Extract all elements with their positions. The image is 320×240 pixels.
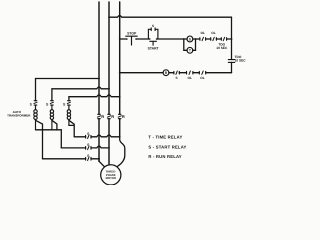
wire: line1 to L3' with hops over L1,L2 <box>91 135 120 137</box>
autotransformer winding 1 <box>34 105 37 130</box>
svg-text:START: START <box>148 46 160 50</box>
wire: drop from bus to line3 <box>42 130 44 159</box>
svg-text:S: S <box>87 154 90 158</box>
node: rung2 tap on L3 <box>119 72 121 74</box>
svg-text:S: S <box>63 102 66 106</box>
contact R (L1) <box>97 114 104 119</box>
svg-text:S: S <box>87 143 90 147</box>
svg-text:10 SEC: 10 SEC <box>235 59 247 63</box>
contact S (line1) <box>86 132 91 138</box>
node: T branch right <box>195 38 197 40</box>
phase line L1 <box>98 2 100 161</box>
contact OL (rung2 first) <box>187 71 193 80</box>
pushbutton STOP (NC) <box>126 32 138 46</box>
svg-text:S: S <box>189 37 192 41</box>
svg-text:R: R <box>111 114 114 119</box>
wire: transformer feed H3 from L3 (hops over L2 and L1) <box>69 95 120 101</box>
wire <box>216 38 221 40</box>
contact S (winding 1 top) <box>30 101 37 107</box>
wire: rung2 from L3 to R coil <box>120 72 163 74</box>
svg-text:TRANSFORMER: TRANSFORMER <box>7 114 31 118</box>
label AUTO TRANSFORMER <box>7 110 31 118</box>
contact OL (rung1 second) <box>211 31 217 41</box>
contact S (line3) <box>86 154 91 160</box>
node: rung1 right <box>231 38 233 40</box>
wire <box>206 38 211 40</box>
contact OL (rung1 first) <box>200 31 206 41</box>
contact S (rung2) <box>174 71 179 80</box>
svg-text:OL: OL <box>211 31 215 35</box>
node: tap2 on bus <box>56 129 58 131</box>
node: T branch left <box>183 38 185 40</box>
svg-text:S: S <box>152 24 154 28</box>
wire: line1 left segment <box>74 136 85 138</box>
contact S (winding 3 top) <box>63 101 70 107</box>
timed contact TDO 10 SEC on right rail <box>228 55 246 63</box>
node: line3 on L1' <box>98 158 100 160</box>
svg-text:OL: OL <box>187 76 191 80</box>
svg-text:R: R <box>101 114 104 119</box>
node: line2 on L2' <box>108 147 110 149</box>
svg-text:S: S <box>30 102 33 106</box>
wire: S coil to OL contacts <box>193 38 200 40</box>
node: H1 tap on L1 <box>98 78 100 80</box>
phase line L2 <box>108 2 110 165</box>
svg-text:R - RUN RELAY: R - RUN RELAY <box>148 154 181 159</box>
legend <box>148 135 186 159</box>
wire: right rail lower <box>231 62 233 72</box>
relay coil R <box>163 70 169 76</box>
pushbutton START (NO) with seal-in contact S branch <box>148 24 160 50</box>
svg-text:MOTOR: MOTOR <box>106 176 116 180</box>
svg-text:10 SEC: 10 SEC <box>216 46 228 50</box>
contact R (L2) <box>107 114 114 119</box>
wire: motor lead from L1' <box>99 159 105 167</box>
svg-text:S - START RELAY: S - START RELAY <box>148 144 186 149</box>
wire: control top line from L2 to right rail <box>109 16 232 18</box>
wire: transformer feed H1 from L1 <box>36 79 100 101</box>
node: line1 on L3' <box>119 136 121 138</box>
node: tap on L2 <box>108 16 110 18</box>
wire: to right rail <box>227 38 232 40</box>
contact R (L3) <box>118 114 125 119</box>
svg-text:STOP: STOP <box>127 32 137 36</box>
relay coil S <box>187 36 193 42</box>
relay coil T (parallel branch) <box>184 39 196 53</box>
svg-text:T: T <box>189 49 192 53</box>
wire: winding1 tap <box>36 120 43 130</box>
contact S (line2) <box>86 143 91 149</box>
node: tap1 on bus <box>42 129 44 131</box>
wire: rung1 segment from L3 to STOP <box>120 38 127 40</box>
svg-text:S: S <box>87 132 90 136</box>
wire: winding2 tap <box>52 120 57 130</box>
node: H3 tap on L3 <box>119 96 121 98</box>
wire: transformer feed H2 from L2 (hop over L1) <box>52 87 109 101</box>
wire: line3 to L1' <box>91 158 99 160</box>
wire: START to S coil branch <box>157 38 188 40</box>
contact S (winding 2 top) <box>46 101 53 107</box>
wire: motor lead from L3' (bulge right) <box>118 137 125 167</box>
wire: line3 left segment <box>43 158 86 160</box>
svg-text:S: S <box>176 76 178 80</box>
wire: rung2 to right rail <box>206 72 232 74</box>
wire: winding3 tap and step down to line1 <box>69 120 74 137</box>
svg-text:OL: OL <box>200 31 204 35</box>
autotransformer winding 3 <box>67 105 70 125</box>
node: H2 tap on L2 <box>108 88 110 90</box>
autotransformer winding 2 <box>50 105 53 130</box>
svg-text:R: R <box>122 114 125 119</box>
phase line L3 <box>119 2 121 137</box>
contact TDO 10 SEC (rung1) <box>216 37 228 50</box>
wire <box>179 72 186 74</box>
wire: drop from bus end to line2 <box>60 130 62 148</box>
wire <box>193 72 199 74</box>
motor: three phase motor <box>101 165 121 185</box>
wire: STOP to START <box>136 38 150 40</box>
wire <box>169 72 174 74</box>
wire: right rail upper <box>231 17 233 58</box>
svg-text:T - TIME RELAY: T - TIME RELAY <box>148 135 182 140</box>
node: rung1 tap on L3 <box>119 38 121 40</box>
svg-text:R: R <box>165 71 168 75</box>
wire: line2 to L2' with hop over L1 <box>91 146 109 148</box>
wire: line2 left segment <box>61 147 85 149</box>
svg-text:S: S <box>46 102 49 106</box>
contact OL (rung2 second) <box>199 71 205 80</box>
wire: star-point bus under windings <box>36 129 62 131</box>
svg-text:OL: OL <box>200 76 204 80</box>
